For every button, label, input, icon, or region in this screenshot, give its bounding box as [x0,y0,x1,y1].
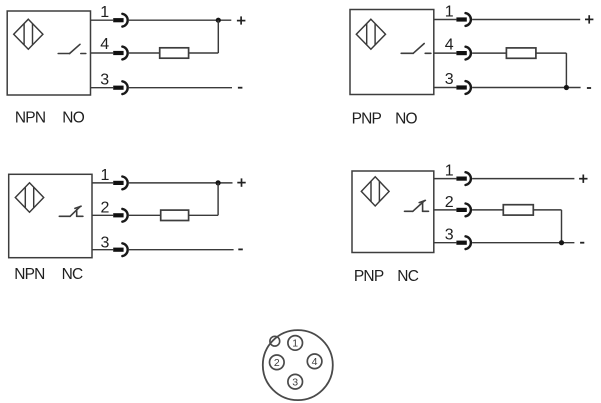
svg-text:NPN: NPN [14,266,44,283]
wire pin 1 to + terminal [472,178,574,180]
wire vertical to - rail [565,53,567,87]
M12 connector face outline [263,330,333,400]
+ terminal [585,15,593,23]
connector plug pin 3 [456,85,466,89]
junction node dot [559,240,564,245]
load resistor R3 [161,210,189,220]
connector plug pin 3 [113,86,123,90]
connector socket arc pin 3 [466,236,471,249]
wire pin 4 from box [434,52,457,54]
svg-text:NC: NC [62,266,83,283]
connector socket arc pin 4 [122,47,127,60]
wire vertical to - rail [561,210,563,243]
connector socket arc pin 1 [466,172,471,185]
svg-text:NC: NC [397,268,418,285]
pin 4 circle [307,354,322,369]
wire pin 1 to + terminal [472,19,580,21]
load resistor R2 [506,48,536,58]
svg-text:1: 1 [100,167,109,184]
pin 1 circle [288,336,303,351]
connector plug pin 2 [113,213,123,217]
- terminal [238,248,243,250]
svg-text:NPN: NPN [15,110,45,127]
svg-text:4: 4 [312,356,318,368]
junction node dot [564,85,569,90]
svg-text:3: 3 [100,234,109,251]
wire pin 3 from box [92,249,113,251]
wire pin 2 from box [434,209,457,211]
wire vertical to + rail [217,20,219,53]
svg-text:3: 3 [292,377,298,389]
connector socket arc pin 4 [466,47,471,60]
wire pin 3 to - terminal [472,242,574,244]
connector socket arc pin 1 [122,14,127,27]
connector socket arc pin 3 [466,81,471,94]
proximity sensor symbol (diamond) U3 [15,183,43,212]
connector socket arc pin 3 [122,81,127,94]
proximity sensor symbol (diamond) U1 [14,19,43,49]
connector socket arc pin 1 [122,177,127,190]
wire resistor to junction [189,214,219,216]
+ terminal [237,16,246,24]
sensor box U3 (NPN NC) [9,174,92,257]
sensor box U1 (NPN NO) [7,11,90,95]
- terminal [587,87,591,89]
svg-text:1: 1 [292,338,298,350]
wire pin 3 from box [434,87,457,89]
wire pin 3 to - terminal [129,249,234,251]
connector plug pin 1 [113,181,123,185]
wire pin 1 from box [434,19,457,21]
connector plug pin 3 [113,248,123,252]
proximity sensor symbol (diamond) U2 [356,19,385,49]
wire pin 1 from box [91,19,114,21]
svg-text:3: 3 [445,71,454,88]
connector socket arc pin 1 [466,13,471,26]
load resistor R4 [503,205,533,215]
connector socket arc pin 3 [122,243,127,256]
svg-text:NO: NO [395,111,417,128]
NC switch contact S3 [59,206,83,216]
sensor box U4 (PNP NC) [352,171,434,253]
svg-text:NO: NO [62,110,84,127]
keying notch [270,336,280,346]
wire pin 4 to resistor [129,52,160,54]
NO switch contact S1 [58,44,86,53]
connector plug pin 1 [113,18,123,22]
wire vertical to + rail [217,183,219,215]
load resistor R1 [160,48,189,58]
svg-text:1: 1 [100,4,109,21]
svg-text:2: 2 [274,357,280,369]
wire pin 3 to - terminal [129,87,232,89]
wire pin 2 to resistor [129,214,161,216]
connector plug pin 3 [456,241,466,245]
svg-text:3: 3 [100,71,109,88]
wire pin 1 to + terminal [129,182,233,184]
svg-text:2: 2 [100,199,109,216]
wire resistor to junction [533,209,561,211]
svg-text:4: 4 [100,36,109,53]
svg-text:PNP: PNP [352,111,382,128]
connector plug pin 4 [113,51,123,55]
proximity sensor symbol (diamond) U4 [361,177,389,206]
wire resistor to junction [536,52,567,54]
junction node dot [216,18,221,23]
+ terminal [237,178,245,186]
NO switch contact S2 [401,44,431,54]
connector socket arc pin 2 [122,209,127,222]
pin 3 circle [288,374,303,389]
connector socket arc pin 2 [466,204,471,217]
+ terminal [579,175,587,183]
svg-text:PNP: PNP [354,268,384,285]
- terminal [238,87,243,89]
wire pin 2 from box [92,214,113,216]
wire pin 3 to - terminal [472,87,580,89]
svg-text:1: 1 [445,163,454,180]
sensor box U2 (PNP NO) [350,10,434,95]
svg-text:1: 1 [445,3,454,20]
connector plug pin 4 [456,51,466,55]
connector plug pin 1 [456,17,466,21]
wire resistor to junction [189,52,218,54]
- terminal [580,242,584,244]
connector plug pin 1 [456,177,466,181]
wire pin 1 to + terminal [129,19,231,21]
wire pin 4 to resistor [472,52,506,54]
connector plug pin 2 [456,208,466,212]
wire pin 3 from box [91,87,114,89]
pin 2 circle [270,355,285,370]
svg-text:2: 2 [445,194,454,211]
wire pin 2 to resistor [472,209,503,211]
svg-text:3: 3 [445,227,454,244]
wire pin 4 from box [91,52,114,54]
NC switch contact S4 [405,200,429,211]
wire pin 1 from box [92,182,113,184]
svg-text:4: 4 [445,36,454,53]
wire pin 1 from box [434,178,457,180]
junction node dot [216,180,221,185]
wire pin 3 from box [434,242,457,244]
